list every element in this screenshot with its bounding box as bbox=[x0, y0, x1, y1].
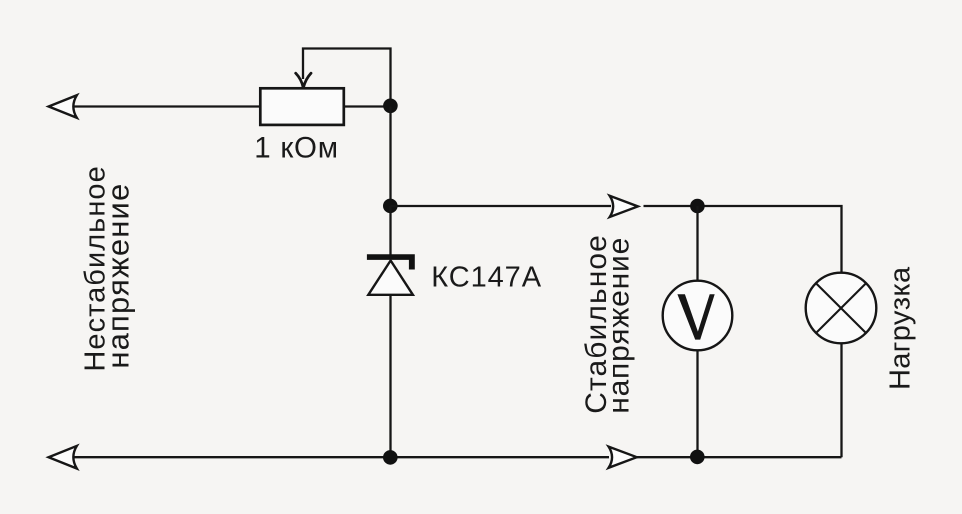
svg-text:напряжение: напряжение bbox=[101, 183, 136, 369]
node D junction dot (zener anode on bottom rail) bbox=[383, 450, 398, 465]
wire voltmeter bottom down to node E bbox=[696, 350, 698, 457]
wire bottom rail right section bbox=[635, 456, 842, 458]
svg-text:1 кОм: 1 кОм bbox=[254, 131, 338, 164]
arrow left terminal (unstable voltage, bottom) bbox=[49, 446, 77, 469]
zener diode VD1 anode triangle bbox=[368, 261, 413, 295]
wire wiper feedback: up from wiper, across, down to node A bbox=[303, 49, 391, 107]
lamp HL1 cross stroke 2 bbox=[816, 283, 866, 333]
wire node B down to zener cathode bbox=[389, 206, 391, 255]
svg-text:КС147А: КС147А bbox=[431, 262, 542, 294]
wire top-left horizontal bbox=[68, 105, 261, 107]
voltmeter PV1 V mark bbox=[677, 294, 714, 339]
zener diode VD1 cathode bar with right tick bbox=[367, 254, 415, 269]
wire zener anode down to node D bbox=[389, 295, 391, 457]
voltmeter PV1 circle bbox=[663, 281, 733, 351]
node E junction dot (voltmeter bottom on bottom rail) bbox=[690, 450, 705, 465]
arrow left terminal (unstable voltage, top) bbox=[49, 95, 77, 118]
wiper arrowhead of potentiometer bbox=[296, 73, 311, 88]
arrow right terminal (stable voltage, plus) bbox=[610, 196, 638, 217]
wire node A down to node B bbox=[389, 107, 391, 206]
wire middle horizontal from arrow to lamp branch corner bbox=[644, 206, 842, 273]
node B junction dot (stabilized bus tap) bbox=[383, 199, 398, 214]
wire resistor right to node A bbox=[344, 105, 391, 107]
arrow right terminal (stable voltage, minus) bbox=[609, 447, 637, 468]
node C junction dot (voltmeter top tap) bbox=[690, 199, 705, 214]
svg-text:Нагрузка: Нагрузка bbox=[885, 266, 917, 390]
wire lamp bottom down to bottom rail bbox=[840, 343, 842, 457]
svg-text:напряжение: напряжение bbox=[603, 237, 636, 414]
wire middle horizontal to output arrow bbox=[391, 205, 612, 207]
node A junction dot (resistor output) bbox=[383, 99, 398, 114]
resistor R1 body (potentiometer 1 kOhm) bbox=[260, 88, 344, 125]
lamp HL1 cross stroke 1 bbox=[816, 283, 866, 333]
lamp HL1 circle (load) bbox=[806, 273, 877, 344]
wire bottom rail left section bbox=[68, 456, 609, 458]
wire node C down to voltmeter bbox=[696, 206, 698, 282]
